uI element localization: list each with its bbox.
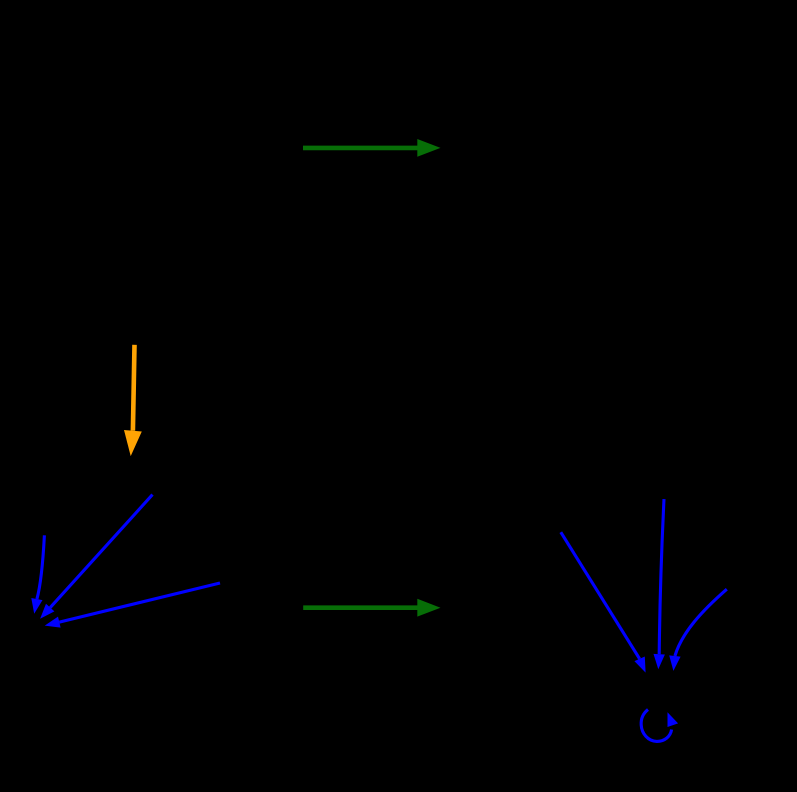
blue arrow B1 (bottom-right cluster, left diagonal) [561, 532, 646, 672]
blue arrow A1 (left, near-vertical) [31, 535, 44, 614]
blue arrow B3 (bottom-right cluster, curved from right) [669, 589, 727, 671]
blue loop arrow (self-arrow below bottom-right cluster) [641, 710, 678, 742]
orange arrow [124, 345, 142, 456]
green reaction arrow top [303, 139, 441, 157]
blue arrow A2 (diagonal from upper right) [40, 495, 152, 619]
blue arrow A3 (shallow from right) [45, 583, 220, 628]
green reaction arrow bottom [303, 599, 440, 617]
blue arrow B2 (bottom-right cluster, middle vertical) [654, 499, 665, 669]
